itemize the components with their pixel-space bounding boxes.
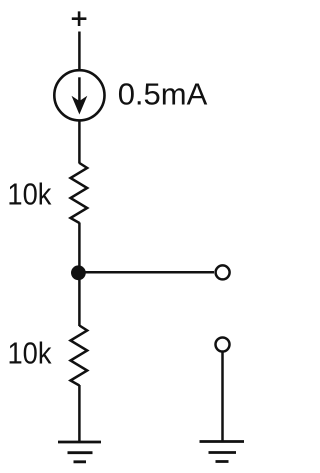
wire R1 to node and node to R2 [78, 223, 81, 327]
resistor R2 zigzag [71, 326, 88, 386]
svg-text:0.5mA: 0.5mA [118, 76, 208, 111]
wire reference terminal to ground [221, 352, 224, 442]
svg-text:10k: 10k [8, 335, 52, 370]
current source arrow shaft [78, 77, 81, 103]
ground symbol left [58, 442, 101, 462]
wire current source to R1 [78, 121, 81, 164]
ground symbol right [200, 442, 245, 462]
resistor R1 zigzag [71, 163, 88, 223]
output terminal (open circle, top right) [216, 265, 230, 279]
node junction dot [71, 265, 86, 280]
reference terminal (open circle, lower right) [216, 338, 230, 352]
wire R2 to ground [78, 385, 81, 442]
svg-text:10k: 10k [7, 177, 51, 212]
wire from + to current source [78, 32, 81, 71]
current source arrowhead [72, 96, 88, 115]
current source I1 circle [54, 70, 104, 120]
horizontal wire node to output terminal [79, 271, 214, 274]
supply + symbol [72, 11, 87, 26]
